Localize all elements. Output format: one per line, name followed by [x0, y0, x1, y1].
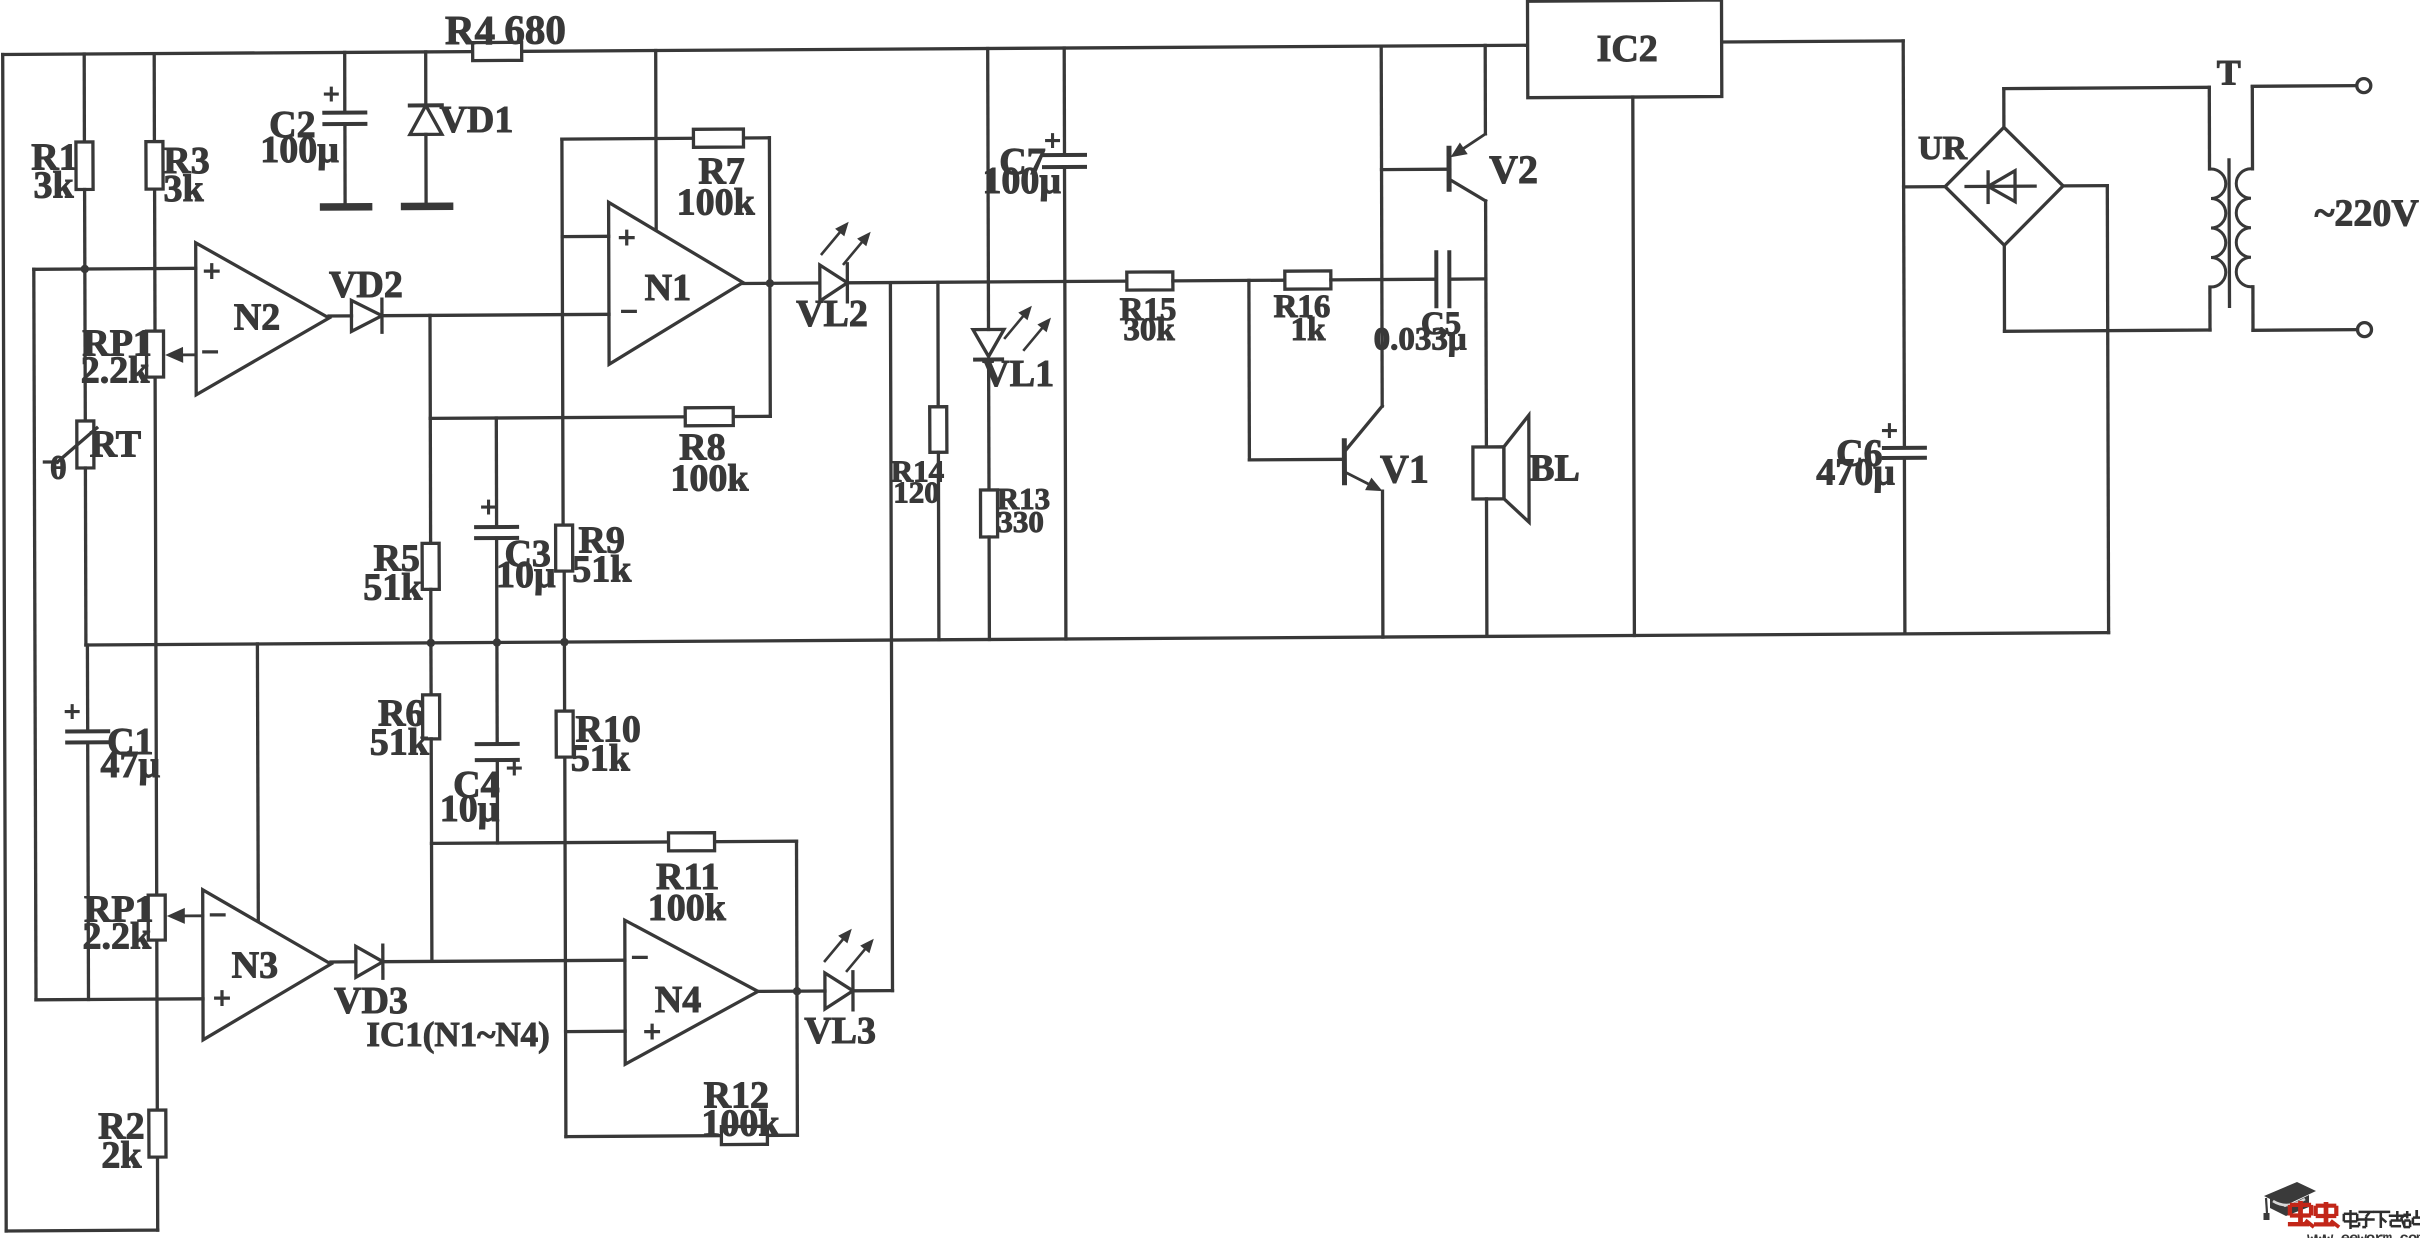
resistor R11 100k — [669, 833, 715, 851]
svg-text:VD2: VD2 — [329, 264, 403, 306]
svg-text:R4: R4 — [445, 7, 495, 53]
wire: VD2 to N1 negative input — [382, 314, 609, 315]
svg-text:BL: BL — [1529, 448, 1580, 490]
svg-text:47μ: 47μ — [101, 744, 161, 786]
svg-text:IC2: IC2 — [1597, 28, 1658, 70]
ground below VD1 — [405, 203, 450, 211]
resistor R4 680 — [473, 42, 522, 60]
resistor R12 100k — [721, 1126, 767, 1144]
wire: R12 row — [566, 1135, 798, 1136]
op-amp N1 — [609, 202, 743, 364]
wire: C2 column from rail — [343, 52, 346, 112]
svg-text:2k: 2k — [101, 1134, 142, 1176]
node: mid rail junction R9/R10 — [560, 638, 568, 646]
potentiometer RP1 (upper) — [147, 331, 164, 377]
wire: bottom left rail — [6, 1228, 158, 1232]
wire: VL3 riser column up to signal row — [890, 283, 892, 991]
svg-text:T: T — [2217, 52, 2241, 92]
wire: R7 feedback row — [562, 138, 770, 139]
wire: VL1 to R13 — [987, 360, 991, 491]
LED VL1 (pointing down) — [973, 329, 1004, 356]
svg-text:VL3: VL3 — [804, 1010, 876, 1052]
wire: N4 + input row — [566, 1030, 626, 1034]
wire: N3 + input row — [36, 999, 203, 1000]
wire: V1 collector column up to top rail — [1381, 46, 1382, 406]
wire: RP1 lower column from mid rail — [154, 645, 158, 896]
terminal: top — [2357, 79, 2371, 93]
diode VD2 — [351, 300, 382, 331]
svg-text:~220V: ~220V — [2315, 193, 2420, 235]
node: mid rail junction R5/R6 — [427, 639, 435, 647]
svg-text:+: + — [323, 78, 340, 111]
node: junction dot N2+ row — [81, 265, 89, 273]
wire: N1 power pin from top rail — [654, 51, 658, 231]
wire: RP1 wiper arrow from N2 negative input — [183, 353, 196, 356]
svg-text:120: 120 — [893, 474, 940, 509]
resistor R16 1k — [1285, 271, 1331, 289]
svg-text:N1: N1 — [645, 267, 691, 309]
svg-text:−: − — [631, 939, 649, 975]
potentiometer RP1 (lower) — [148, 895, 165, 940]
op-amp N3 — [203, 890, 331, 1040]
svg-text:www.eeworm.com: www.eeworm.com — [2307, 1230, 2420, 1238]
watermark: black site name characters — [2344, 1210, 2420, 1229]
watermark: eeworm logo graduation cap — [2264, 1182, 2317, 1220]
wire: N3 output to VD3 — [331, 960, 356, 964]
diode VD1 (zener to ground) — [410, 103, 442, 107]
wire: V1 base feed from signal row — [1247, 280, 1251, 460]
svg-text:−: − — [620, 293, 638, 329]
wire: N1 box left column (R7 row to R9) — [562, 139, 563, 525]
svg-text:V2: V2 — [1489, 147, 1538, 192]
svg-text:−: − — [209, 897, 227, 933]
ground below C2 — [324, 203, 369, 211]
wire: N3 power pin from mid rail — [256, 644, 260, 920]
resistor R8 100k — [685, 408, 733, 426]
svg-text:1k: 1k — [1291, 312, 1327, 348]
svg-text:+: + — [1044, 125, 1061, 158]
wire: R2 to bottom rail — [156, 1157, 159, 1230]
wire: R16 to C5 — [1331, 278, 1436, 282]
svg-text:θ: θ — [50, 450, 67, 486]
resistor R7 100k — [693, 129, 743, 147]
svg-text:2.2k: 2.2k — [82, 915, 152, 957]
node: mid rail junction C3/C4 — [493, 638, 501, 646]
diode VD3 — [356, 946, 383, 977]
svg-text:51k: 51k — [571, 737, 631, 779]
svg-text:3k: 3k — [164, 168, 205, 210]
wire: RP1 wiper arrow from N3 negative input — [185, 914, 203, 917]
wire: signal row VL2 to R15 — [847, 281, 1127, 283]
svg-text:RT: RT — [90, 423, 141, 465]
wire: V2 emitter column down through C5 row to BL — [1484, 201, 1488, 447]
resistor R6 51k — [423, 695, 440, 739]
wire: R5 column from VD2 row — [428, 315, 432, 418]
svg-text:N2: N2 — [234, 296, 280, 338]
wire: IC2 bottom pin to rail — [1633, 97, 1635, 636]
transistor V2 — [1447, 148, 1452, 189]
svg-text:10μ: 10μ — [496, 554, 556, 596]
wire: left border vertical — [3, 55, 6, 1232]
wire: N2 output to VD2 — [329, 314, 352, 317]
svg-text:51k: 51k — [572, 548, 632, 590]
wire: UR top corner to transformer — [2002, 89, 2005, 128]
wire: transformer to bottom terminal — [2253, 328, 2358, 332]
capacitor C1 47u — [67, 729, 108, 733]
LED VL3 — [825, 973, 853, 1009]
svg-text:51k: 51k — [370, 722, 430, 764]
wire: link column N2+ to N3+ — [34, 269, 36, 1000]
wire: right column from IC2 to UR and C6 — [1903, 41, 1904, 448]
wire: N2+ row — [34, 268, 196, 269]
capacitor C4 10u — [477, 742, 518, 746]
wire: UR bottom corner to transformer bottom wire — [2003, 245, 2006, 331]
svg-text:−: − — [201, 334, 219, 370]
wire: R1/RT column — [83, 54, 87, 142]
wire: N4 output to VL3 — [758, 989, 825, 993]
LED VL2 — [820, 265, 848, 301]
wire: UR right corner down to rail — [2063, 184, 2107, 188]
wire: VL1 column from top rail — [986, 49, 990, 330]
wire: VD1 column from rail — [424, 52, 427, 106]
svg-text:100k: 100k — [677, 182, 756, 224]
svg-text:+: + — [618, 219, 636, 255]
wire: RP1 down to R2 — [155, 940, 159, 1110]
resistor R10 51k — [556, 711, 573, 757]
wire: R14 column — [936, 282, 940, 407]
svg-text:+: + — [203, 253, 221, 289]
wire: R3 down to RP1 — [153, 189, 157, 331]
wire: R8 feedback row — [430, 416, 770, 418]
wire: C3 column — [495, 418, 499, 527]
capacitor C3 10u — [476, 525, 517, 529]
resistor R3 — [146, 142, 163, 190]
wire: IC2 right pin — [1722, 41, 1904, 42]
wire: VD3 to N4 negative input — [383, 960, 625, 962]
resistor R13 330 — [981, 490, 998, 537]
wire: transformer to top terminal — [2252, 84, 2357, 88]
svg-text:470μ: 470μ — [1816, 452, 1895, 494]
speaker BL — [1473, 447, 1504, 499]
wire: N1 output and feedback column — [768, 138, 772, 417]
svg-text:680: 680 — [504, 7, 566, 53]
svg-text:V1: V1 — [1380, 446, 1429, 491]
resistor R5 51k — [422, 543, 439, 589]
wire: V2 base row — [1382, 168, 1450, 172]
wire: C1 column — [86, 645, 90, 731]
wire: R3/RP1 column top — [153, 54, 156, 142]
wire: R15 to R16 — [1173, 279, 1285, 283]
wire: R10 column from mid rail — [563, 642, 566, 711]
svg-text:100μ: 100μ — [982, 160, 1061, 202]
wire: BL to rail — [1485, 499, 1489, 637]
thermistor RT — [77, 421, 94, 468]
svg-text:100k: 100k — [648, 887, 727, 929]
svg-text:10μ: 10μ — [440, 788, 500, 830]
svg-text:UR: UR — [1918, 130, 1968, 167]
wire: VL3 to riser column — [853, 989, 893, 993]
svg-text:+: + — [480, 491, 497, 524]
svg-text:+: + — [506, 752, 523, 785]
transistor V1 — [1342, 441, 1347, 483]
svg-text:100k: 100k — [701, 1103, 780, 1145]
wire: N1 + input row — [562, 235, 609, 239]
op-amp N2 — [196, 243, 329, 395]
svg-text:N4: N4 — [655, 979, 701, 1021]
svg-text:+: + — [213, 980, 231, 1016]
wire: C4 column from mid rail — [495, 643, 499, 745]
wire: UR left corner row — [1904, 185, 1946, 189]
resistor R1 — [76, 142, 93, 190]
capacitor C6 470u — [1884, 446, 1925, 450]
svg-text:VL1: VL1 — [982, 353, 1054, 395]
svg-text:3k: 3k — [34, 165, 75, 207]
wire: C5 to V2 emitter column — [1449, 277, 1486, 281]
wire: V2 collector to top rail — [1484, 45, 1488, 133]
wire: mid supply rail — [86, 633, 2109, 645]
svg-text:0.033μ: 0.033μ — [1374, 321, 1467, 357]
svg-text:100k: 100k — [670, 458, 749, 500]
wire: N4 feedback right column — [795, 841, 799, 1135]
svg-text:330: 330 — [997, 504, 1044, 539]
svg-text:VD1: VD1 — [439, 99, 513, 141]
wire: R1 to junction and RT — [83, 190, 87, 422]
wire: RP1 down to mid rail — [153, 377, 157, 644]
IC2 box — [1528, 0, 1722, 98]
svg-text:N3: N3 — [232, 945, 278, 987]
terminal: bottom — [2358, 323, 2372, 337]
capacitor C2 100u — [324, 111, 365, 115]
svg-text:30k: 30k — [1123, 312, 1175, 348]
capacitor C7 100u — [1044, 153, 1085, 157]
transformer core — [2227, 160, 2231, 307]
resistor R9 51k — [556, 525, 573, 571]
svg-text:VL2: VL2 — [796, 293, 868, 335]
resistor R2 2k — [149, 1110, 166, 1157]
bridge rectifier UR — [1945, 127, 2063, 245]
resistor R14 120 — [930, 407, 947, 453]
wire: R6 column from mid rail — [429, 643, 433, 695]
wire: C7 column from top rail — [1063, 48, 1067, 155]
svg-text:51k: 51k — [363, 567, 423, 609]
watermark: red chongchong characters — [2288, 1201, 2339, 1227]
node: N1 output junction — [766, 279, 774, 287]
svg-text:2.2k: 2.2k — [81, 349, 151, 391]
node: N4 output junction — [793, 987, 801, 995]
wire: N4 feedback row R11 — [432, 841, 797, 843]
capacitor C5 0.033u — [1434, 252, 1438, 306]
wire: V1 emitter to rail — [1381, 491, 1385, 637]
transformer right winding — [2251, 87, 2254, 169]
svg-text:+: + — [1881, 415, 1898, 448]
svg-text:100μ: 100μ — [260, 129, 339, 171]
wire: top supply rail — [3, 45, 1528, 54]
svg-text:IC1(N1~N4): IC1(N1~N4) — [366, 1015, 549, 1054]
op-amp N4 — [625, 920, 758, 1064]
svg-text:+: + — [64, 696, 81, 729]
resistor R15 30k — [1127, 272, 1173, 290]
